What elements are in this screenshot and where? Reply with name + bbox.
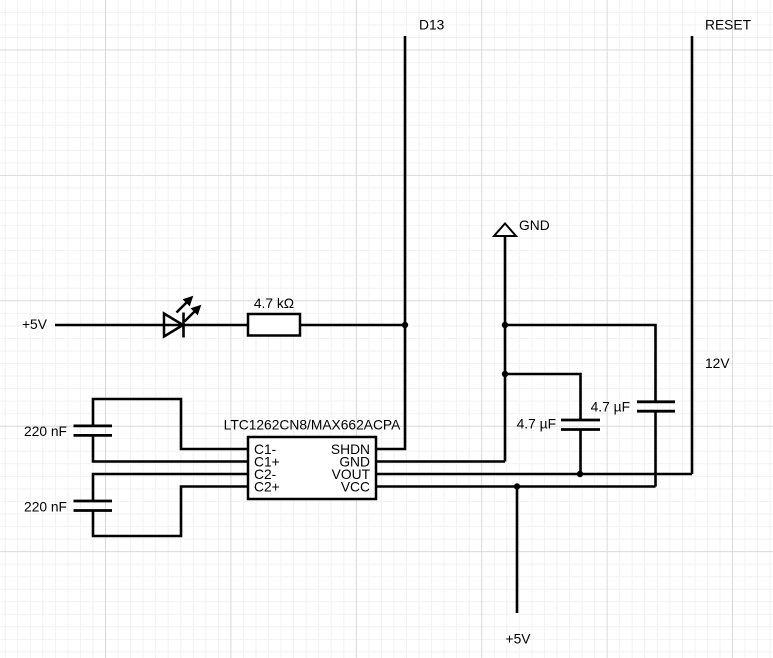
wire GND junction right to capacitor C3 top <box>505 374 581 420</box>
svg-text:4.7 µF: 4.7 µF <box>591 400 630 415</box>
wire GND vertical <box>504 236 507 462</box>
LED D1 arrow 1 <box>177 297 193 313</box>
capacitor C2 220 nF plates <box>74 501 113 511</box>
svg-text:VCC: VCC <box>341 480 370 495</box>
capacitor C1 220 nF plates <box>74 426 113 436</box>
junction dot at GND/rail <box>502 322 508 328</box>
svg-text:RESET: RESET <box>705 18 752 33</box>
wire D13 vertical down to SHDN pin <box>376 36 405 449</box>
wire GND pin to GND vertical <box>376 460 505 463</box>
wire C2+ pin to capacitor C2 bottom plate <box>93 487 248 537</box>
wire C1+ pin to capacitor C1 bottom plate <box>93 435 248 461</box>
wire capacitor C3 bottom to VOUT line <box>579 430 582 475</box>
wire VOUT pin line to RESET <box>376 473 692 476</box>
wire VCC pin line <box>376 485 656 488</box>
svg-text:LTC1262CN8/MAX662ACPA: LTC1262CN8/MAX662ACPA <box>224 418 401 433</box>
wire GND junction right to capacitor C4 top <box>505 325 656 402</box>
svg-text:D13: D13 <box>419 18 445 33</box>
capacitor C3 4.7 uF plates <box>561 420 600 430</box>
svg-text:12V: 12V <box>705 356 730 371</box>
svg-text:4.7 kΩ: 4.7 kΩ <box>254 296 294 311</box>
wire capacitor C4 bottom to VCC line <box>654 411 657 486</box>
resistor R1 4.7 kOhm body <box>248 314 300 336</box>
wire C2- pin to capacitor C2 top plate <box>93 474 248 501</box>
svg-text:4.7 µF: 4.7 µF <box>517 417 556 432</box>
svg-text:+5V: +5V <box>22 317 48 332</box>
junction dot at GND/C3 branch <box>502 371 508 377</box>
svg-text:GND: GND <box>519 218 550 233</box>
junction dot at C3/VOUT <box>577 471 583 477</box>
svg-text:220 nF: 220 nF <box>24 499 67 514</box>
junction dot at D13/rail <box>402 322 408 328</box>
junction dot at +5V/VCC <box>514 483 520 489</box>
wire C1- pin to capacitor C1 top plate <box>93 399 248 449</box>
wire +5V bottom supply <box>516 487 519 614</box>
ground symbol GND arrow <box>494 224 516 237</box>
wire RESET vertical down to VOUT line <box>691 36 694 474</box>
LED D1 arrow 2 <box>185 306 201 322</box>
svg-text:C2+: C2+ <box>254 480 280 495</box>
svg-text:220 nF: 220 nF <box>24 424 67 439</box>
capacitor C4 4.7 uF plates <box>637 402 675 411</box>
wire +5V rail to D13 junction <box>55 324 405 327</box>
LED D1 cathode bar <box>182 313 185 338</box>
IC U1 body <box>248 437 376 499</box>
LED D1 triangle <box>164 314 183 337</box>
svg-text:+5V: +5V <box>506 632 532 647</box>
